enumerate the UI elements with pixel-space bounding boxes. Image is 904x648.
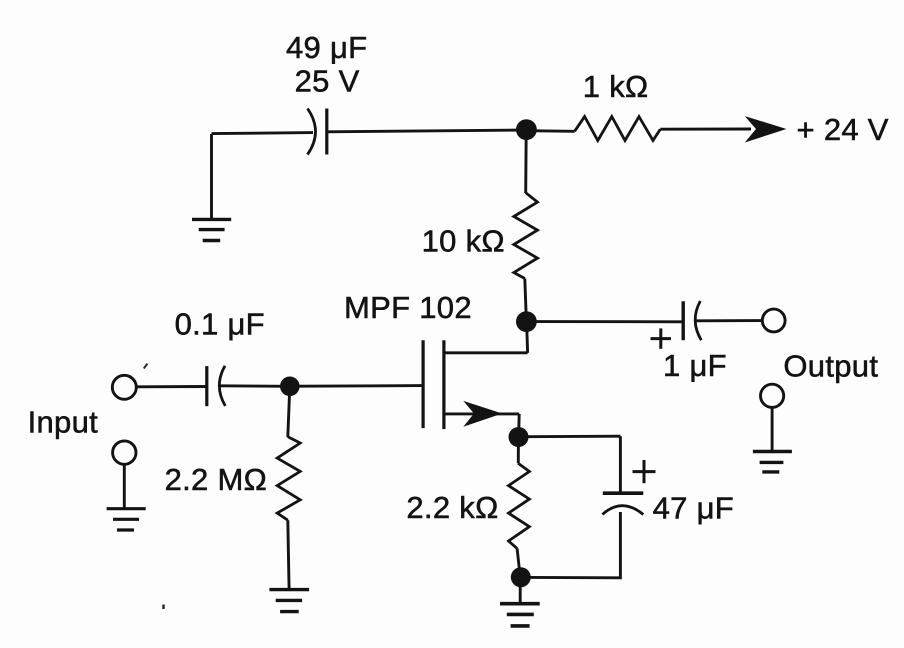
JFET MPF 102: source lead (444, 412, 519, 415)
node B (drain junction) (516, 311, 537, 332)
svg-text:2.2 MΩ: 2.2 MΩ (165, 462, 268, 497)
svg-text:1 kΩ: 1 kΩ (583, 69, 649, 104)
wire: resistor 2.2 kOhm to node E (517, 548, 520, 577)
svg-text:Output: Output (783, 349, 878, 384)
wire: node E to ground (519, 577, 522, 604)
svg-text:49 μF: 49 μF (286, 30, 367, 65)
polarity + of capacitor 1 uF (651, 328, 672, 348)
wire: capacitor 47 uF down and left to node E (530, 512, 620, 578)
node C (gate junction) (280, 377, 300, 397)
ground (below node E) (500, 604, 540, 626)
node D (source junction) (509, 427, 529, 447)
JFET MPF 102: source arrow (463, 401, 502, 427)
svg-text:MPF 102: MPF 102 (344, 290, 472, 325)
wire: JFET source down to node D (517, 414, 521, 437)
resistor 2.2 kOhm (vertical zigzag) (509, 463, 530, 548)
capacitor 47 uF (straight plate + curved plate, vertical) (602, 493, 643, 514)
svg-text:1 μF: 1 μF (663, 348, 727, 383)
output terminal (open circle) (762, 309, 785, 332)
wire: capacitor 0.1 uF to node C (220, 384, 290, 387)
capacitor 0.1 uF (straight plate + curved plate) (207, 366, 226, 406)
wire: capacitor 1 uF to output terminal (696, 319, 762, 322)
ground (below input terminal) (107, 509, 146, 530)
wire: node B to capacitor 1 uF (536, 320, 683, 323)
wire: node B down to drain lead (527, 322, 528, 353)
ground (top left, under 49 uF) (192, 219, 231, 240)
svg-text:10 kΩ: 10 kΩ (422, 224, 505, 259)
stray scan speck (162, 605, 164, 610)
wire: down to capacitor 47 uF (619, 436, 622, 493)
wire: resistor 2.2 MOhm to ground (288, 520, 289, 589)
svg-text:2.2 kΩ: 2.2 kΩ (406, 490, 498, 525)
wire: resistor 10 kOhm to node B (525, 279, 527, 323)
capacitor 1 uF (straight plate + curved plate) (683, 301, 701, 340)
wire: node A down to resistor 10 kOhm (524, 130, 527, 193)
wire: top rail, capacitor C1 to node A (327, 130, 526, 132)
polarity + of capacitor 47 uF (633, 460, 656, 483)
ground (below output terminal) (753, 452, 792, 472)
input ground terminal (open circle) (113, 441, 136, 464)
resistor 2.2 MOhm (vertical zigzag) (277, 437, 300, 520)
capacitor 49 uF (curved plate + straight plate) (308, 109, 327, 155)
wire: node D right to capacitor 47 uF branch (528, 435, 620, 438)
resistor 1 kOhm (horizontal zigzag) (575, 117, 661, 141)
wire: left riser from top rail down to ground (210, 134, 213, 219)
JFET MPF 102: drain lead (444, 351, 528, 354)
JFET MPF 102: gate bar (422, 340, 425, 428)
output ground terminal (open circle) (761, 384, 784, 407)
wire: node C down to resistor 2.2 MOhm (288, 386, 290, 437)
svg-text:+ 24 V: + 24 V (797, 112, 889, 147)
ground (below resistor 2.2 MOhm) (269, 590, 309, 612)
wire: top rail, ground riser to capacitor C1 (212, 133, 314, 134)
JFET MPF 102: channel bar (442, 340, 445, 429)
arrow to +24 V supply (745, 116, 787, 142)
wire: node A to resistor 1 kOhm (536, 129, 575, 132)
svg-text:Input: Input (28, 404, 99, 439)
wire: node C to JFET gate (299, 384, 423, 388)
svg-text:25 V: 25 V (295, 63, 360, 98)
wire: resistor 1 kOhm to +24V arrow (660, 128, 751, 131)
wire: node D down to resistor 2.2 kOhm (517, 437, 520, 463)
svg-text:47 μF: 47 μF (653, 491, 734, 526)
wire: output ground terminal to ground (771, 407, 774, 451)
resistor 10 kOhm (vertical zigzag) (514, 193, 538, 279)
svg-text:0.1 μF: 0.1 μF (175, 307, 265, 342)
node E (bypass junction) (511, 567, 531, 587)
node A (junction dot at +24V rail) (516, 119, 537, 140)
wire: input ground terminal to ground (123, 464, 126, 508)
wire: input terminal to capacitor 0.1 uF (137, 385, 208, 388)
input terminal (open circle) (112, 375, 136, 399)
stray scan tick (144, 364, 148, 369)
